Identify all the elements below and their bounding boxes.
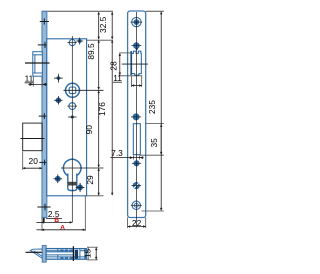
screw hole (countersunk) top	[131, 17, 143, 26]
outer dimension line (32.5 / 176)	[111, 12, 113, 195]
boss screw (58.4,100.3)	[54, 96, 62, 104]
deadbolt cutout	[133, 124, 140, 155]
cross on centerline (72,117)	[68, 116, 76, 119]
boss cross (58.4,78.1)	[54, 74, 63, 83]
svg-text:90: 90	[84, 125, 94, 135]
inner lines	[46, 249, 86, 259]
svg-text:7.3: 7.3	[111, 148, 123, 158]
cylinder body blob	[75, 250, 79, 259]
hole 6 double circle	[131, 201, 142, 209]
svg-text:11: 11	[113, 73, 122, 83]
svg-text:11: 11	[25, 74, 34, 84]
lock case rectangle	[47, 39, 87, 196]
dimension A line	[36, 229, 41, 231]
2.5 tick at strip bottom	[43, 218, 45, 223]
faceplate bar (bottom view)	[42, 246, 46, 263]
boss screw (57.8,178.8)	[53, 174, 62, 183]
dimension 15	[87, 246, 98, 248]
inner dimension line (32.5/89.5/90/29 chain)	[98, 12, 100, 195]
latch tip triangle on centerline	[135, 48, 139, 51]
20 box (strike/follower phantom box)	[21, 123, 45, 151]
follower horizontal centerline / ext for 89.5-90	[64, 89, 104, 91]
case body (bottom view)	[46, 249, 86, 260]
35 arrows on 235 line	[160, 124, 162, 154]
faceplate strip (front view)	[42, 12, 47, 218]
svg-text:A: A	[60, 224, 65, 231]
faceplate screw cross 5	[37, 204, 50, 211]
svg-text:28: 28	[109, 61, 119, 71]
svg-text:B: B	[54, 217, 59, 224]
cylinder horizontal centerline / ext for 90-29	[61, 167, 104, 169]
latch centerline	[25, 62, 50, 64]
dashed thick segments	[60, 250, 73, 259]
hole 2 filled	[132, 42, 142, 49]
hole 4 filled	[132, 160, 141, 166]
hole 3 filled (cylinder screw)	[131, 113, 141, 120]
case end inner edge (bottom view)	[84, 249, 86, 259]
faceplate screw cross 4	[39, 160, 52, 166]
svg-text:29: 29	[85, 175, 95, 185]
latch bolt (front view, protruding left)	[33, 52, 43, 76]
svg-text:176: 176	[97, 102, 107, 116]
svg-text:20: 20	[29, 156, 39, 166]
dimension B line	[36, 221, 41, 223]
dimension 22	[127, 218, 129, 229]
ext 35 bottom	[140, 154, 164, 156]
ext line case bottom (29 bottom)	[87, 195, 104, 197]
latch tip (bottom view)	[30, 249, 42, 259]
dimension 28	[119, 52, 131, 54]
right view centerline	[135, 12, 137, 227]
cylinder axis line (bottom view)	[72, 246, 74, 261]
bottom dims: ext verticals	[41, 218, 43, 231]
latch side face (dark bar)	[130, 51, 132, 75]
latch centerline (right view)	[122, 63, 148, 65]
svg-text:235: 235	[147, 100, 157, 114]
top boss dot	[76, 38, 83, 45]
small hole below follower	[69, 103, 76, 110]
svg-text:89.5: 89.5	[86, 43, 96, 60]
boss screw (79.7,185.6)	[76, 183, 85, 192]
svg-text:35: 35	[149, 138, 159, 148]
cylinder hole (euro profile)	[63, 159, 81, 190]
faceplate screw cross 2	[38, 42, 52, 48]
faceplate screw cross top	[40, 18, 49, 24]
ext line case top (32.5/89.5/176 boundary)	[42, 39, 113, 41]
follower (handle hub)	[66, 83, 80, 97]
235 top ext	[146, 10, 164, 12]
ext 35 top	[146, 123, 164, 125]
dimension 235 line	[160, 12, 162, 211]
faceplate strip (right view)	[128, 11, 146, 218]
svg-text:32.5: 32.5	[98, 16, 108, 33]
hole 5 (slotted screw)	[132, 182, 142, 189]
vertical centerline (left view)	[71, 36, 73, 223]
top screw hole circle	[69, 40, 75, 46]
svg-text:15: 15	[83, 249, 93, 259]
bottom view centerline	[26, 251, 80, 253]
ext line top (32.5 top)	[42, 10, 113, 12]
faceplate screw cross 3	[39, 113, 52, 119]
235 bottom ext	[142, 210, 164, 212]
latch cutout (right view)	[131, 52, 141, 75]
